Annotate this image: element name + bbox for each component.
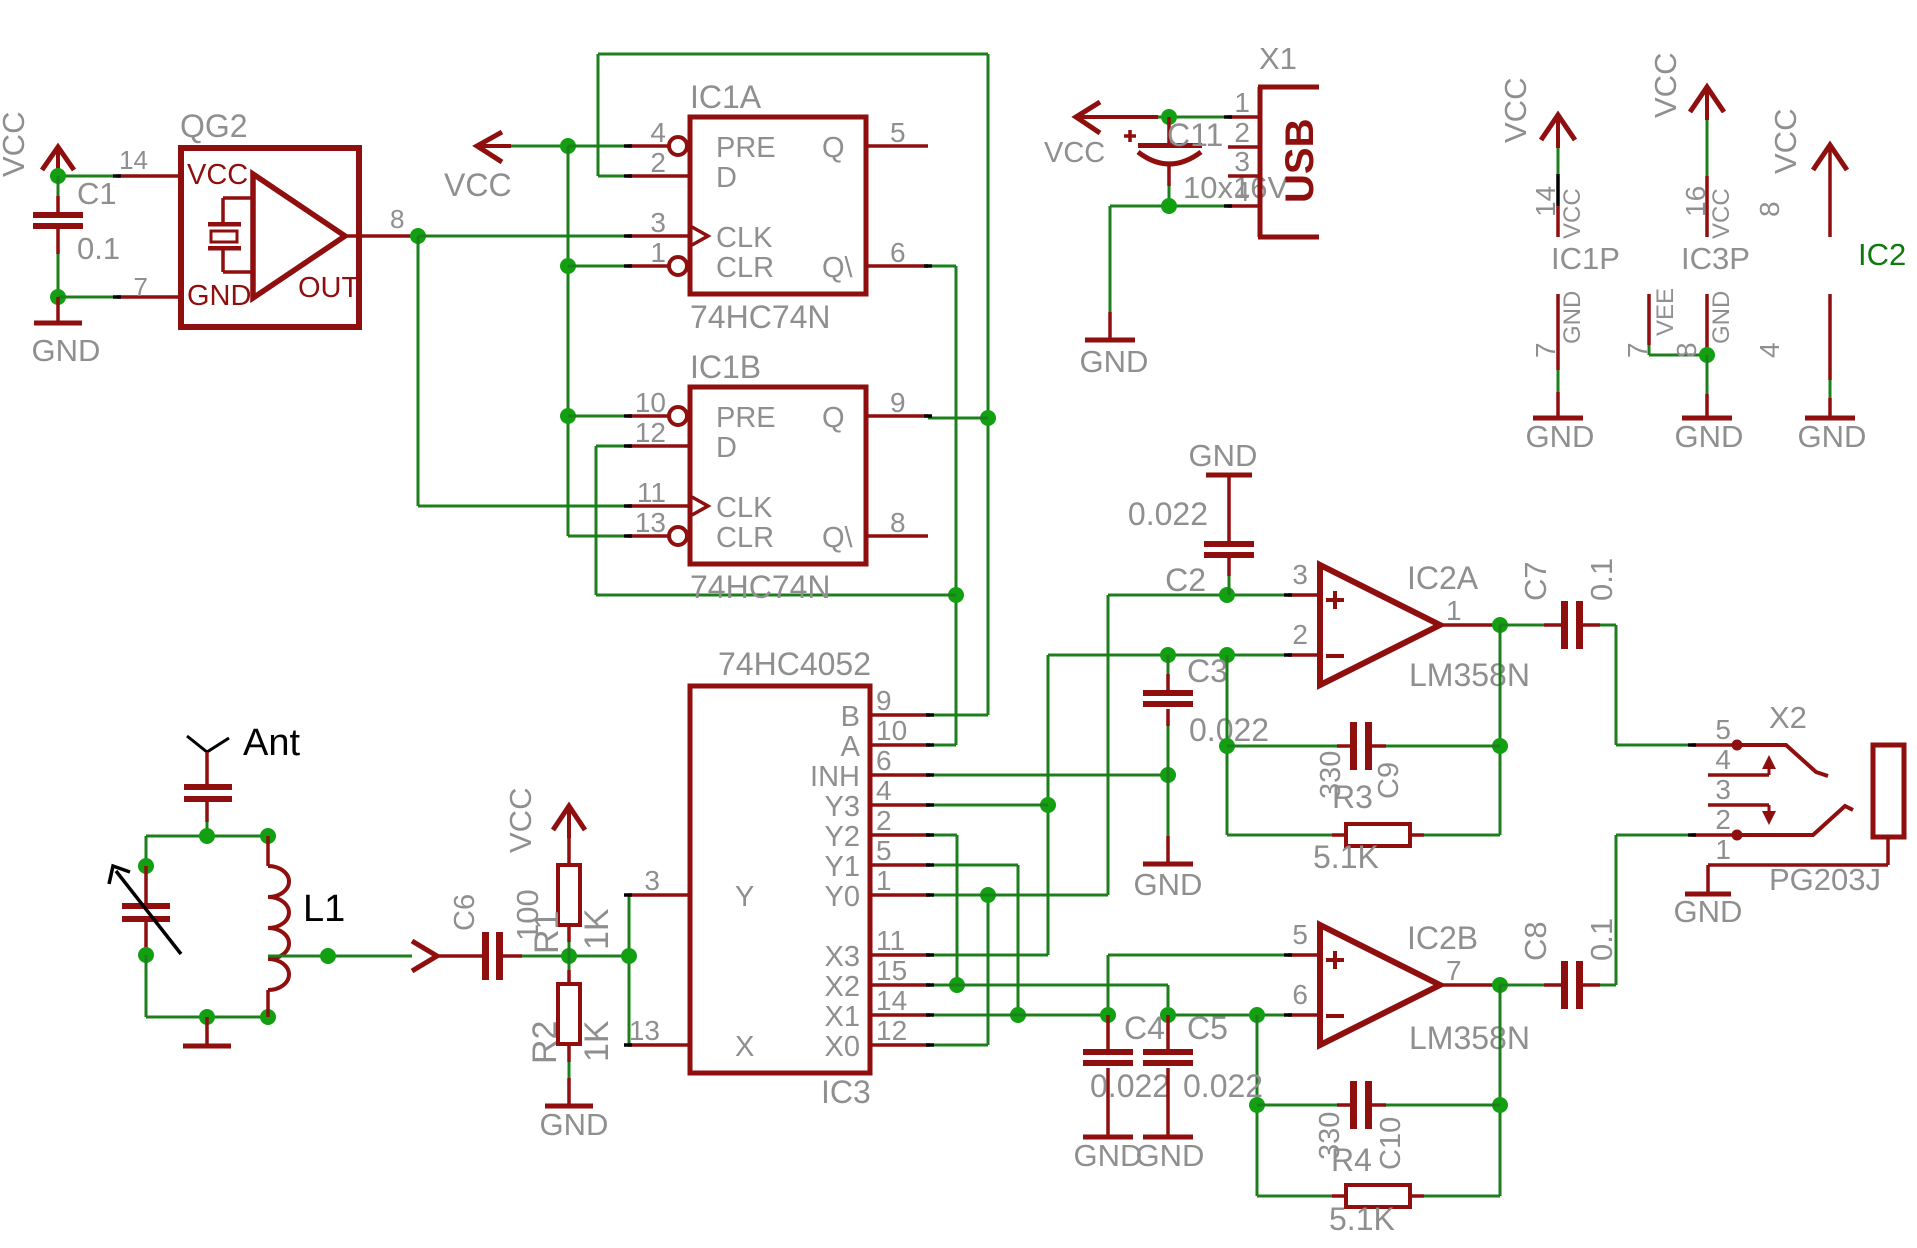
wire C8 to X2 pin2: [1600, 835, 1692, 985]
pin Y3 stub (IC3 pin 4): [870, 803, 930, 807]
pin number 1 (IC3): [876, 865, 892, 896]
pin +in stub (IC2A): [1288, 593, 1320, 597]
connector X1 USB bracket: [1258, 87, 1319, 237]
svg-text:PRE: PRE: [716, 402, 776, 434]
pin 7 VEE (IC3P): [1649, 294, 1707, 355]
pin name B (IC3): [841, 701, 860, 733]
pin 4 stub (X1): [1228, 204, 1260, 208]
value LM358N (IC2A): [1409, 657, 1530, 693]
pin name A (IC3): [841, 731, 861, 763]
capacitor C4 plates: [1083, 1049, 1133, 1066]
pin A stub (IC3 pin 10): [870, 743, 930, 747]
pin number 3 (X2): [1715, 774, 1731, 805]
label IC1B: [690, 349, 761, 385]
svg-text:IC2: IC2: [1858, 237, 1906, 272]
svg-text:9: 9: [876, 685, 892, 716]
svg-text:0.1: 0.1: [1584, 558, 1619, 601]
svg-text:C5: C5: [1187, 1010, 1228, 1046]
junction node VCC/C1 top: [50, 168, 66, 184]
arrow across variable capacitor: [109, 866, 181, 954]
wire feedback B left rail: [1256, 1015, 1259, 1196]
capacitor C5 plates: [1143, 1049, 1193, 1066]
capacitor C11 plates (polarized): [1138, 143, 1202, 164]
svg-text:7: 7: [134, 272, 148, 302]
pin number 2 (X1): [1234, 117, 1250, 148]
net label VCC above R1 (rotated): [503, 788, 538, 853]
pin name VEE (IC3P, rotated): [1652, 288, 1679, 336]
svg-text:CLR: CLR: [716, 522, 774, 554]
pin -in stub (IC2A): [1288, 653, 1320, 657]
svg-text:1: 1: [1234, 87, 1250, 118]
svg-text:IC3P: IC3P: [1681, 241, 1750, 276]
svg-text:8: 8: [1754, 201, 1785, 217]
svg-text:X1: X1: [825, 1001, 860, 1033]
svg-text:OUT: OUT: [298, 272, 360, 304]
wire GND to QG2 pin 7: [58, 296, 117, 299]
pin number 7 (QG2): [134, 272, 148, 302]
pin 14 stub (QG2 VCC): [117, 174, 181, 178]
wire IC1B Q output: [928, 417, 988, 420]
junction antenna/tank top: [199, 828, 215, 844]
pin name OUT (QG2): [298, 272, 360, 304]
svg-text:8: 8: [390, 204, 404, 234]
svg-text:14: 14: [119, 145, 148, 175]
svg-text:3: 3: [650, 207, 666, 238]
pin X0 stub (IC3 pin 12): [870, 1043, 930, 1047]
flip-flop IC1A box: [690, 117, 866, 294]
svg-text:GND: GND: [1708, 291, 1735, 344]
svg-text:C10: C10: [1375, 1117, 1407, 1170]
svg-text:8: 8: [1671, 342, 1702, 358]
pin 16 VCC (IC3P): [1705, 87, 1709, 237]
svg-text:1: 1: [650, 237, 666, 268]
label C4: [1124, 1010, 1165, 1046]
junction node GND/C1 bottom: [50, 289, 66, 305]
pin name Y1 (IC3): [825, 851, 860, 883]
svg-text:Y: Y: [735, 881, 754, 913]
svg-text:C6: C6: [449, 894, 481, 931]
svg-text:2: 2: [1234, 117, 1250, 148]
ground symbol (IC1P): [1533, 416, 1583, 421]
svg-text:IC3: IC3: [821, 1074, 871, 1110]
pin numbers (IC2B): [1292, 919, 1461, 1010]
wire C3 top stem: [1167, 655, 1170, 691]
ground symbol (under C1): [32, 297, 101, 368]
svg-text:VCC: VCC: [1044, 137, 1105, 169]
svg-text:12: 12: [635, 417, 666, 448]
svg-text:5: 5: [1715, 714, 1731, 745]
svg-text:C7: C7: [1518, 561, 1553, 601]
wire Y0 to IC2A + input: [930, 595, 1288, 895]
svg-text:0.1: 0.1: [77, 231, 120, 266]
ground symbol (IC3P): [1682, 416, 1732, 421]
wire C6 node to Y/X riser: [569, 955, 629, 958]
op-amp buffer triangle (QG2 internal): [253, 174, 345, 298]
pin Q stub (IC1A): [866, 144, 928, 148]
label L1: [303, 888, 345, 930]
svg-text:4: 4: [650, 117, 666, 148]
power symbol VCC (IC1P): [1541, 115, 1575, 140]
svg-text:VCC: VCC: [1708, 188, 1735, 239]
inductor L1: [268, 836, 289, 1017]
minus symbol (IC2B): [1326, 1014, 1344, 1018]
wire R4 left: [1257, 1195, 1346, 1198]
svg-text:5: 5: [1292, 919, 1308, 950]
pin number 10 (IC3): [876, 715, 907, 746]
svg-text:Q\: Q\: [822, 522, 854, 554]
svg-text:13: 13: [635, 507, 666, 538]
junction tap wire: [320, 948, 336, 964]
svg-text:GND: GND: [187, 280, 251, 312]
wire C9 right: [1372, 744, 1500, 748]
junction INH/C3: [1160, 767, 1176, 783]
label C11: [1167, 117, 1223, 153]
pin CLR stub (IC1B): [628, 527, 687, 545]
svg-text:0.022: 0.022: [1183, 1068, 1263, 1104]
multiplexer IC3 74HC4052 box: [690, 686, 870, 1073]
pin Q\ stub (IC1B): [866, 534, 928, 538]
pin number 7 (IC1P, rotated): [1530, 342, 1561, 358]
svg-text:0.1: 0.1: [1584, 918, 1619, 961]
svg-text:Ant: Ant: [243, 722, 300, 764]
svg-text:10: 10: [635, 387, 666, 418]
text GND below C4: [1074, 1138, 1143, 1173]
label IC1A: [690, 79, 762, 115]
pin +in stub (IC2B): [1288, 953, 1320, 957]
power symbol VCC above R1: [553, 806, 585, 838]
wire X corner: [628, 1044, 629, 1047]
capacitor C11 plus sign: [1124, 130, 1136, 142]
antenna Ant symbol: [187, 736, 229, 774]
wire IC3P to ground: [1706, 355, 1709, 416]
pin Y2 stub (IC3 pin 2): [870, 833, 930, 837]
junction VEE/GND (IC3P): [1699, 347, 1715, 363]
label IC2A: [1407, 560, 1479, 596]
pin 7 GND (IC1P): [1556, 294, 1560, 416]
svg-text:Y3: Y3: [825, 791, 860, 823]
capacitor C7 plates: [1561, 601, 1583, 649]
svg-text:7: 7: [1530, 342, 1561, 358]
wire C10 right: [1372, 1103, 1500, 1107]
jack sleeve body (X2): [1873, 745, 1904, 837]
svg-text:Y1: Y1: [825, 851, 860, 883]
svg-text:10: 10: [876, 715, 907, 746]
value 1K (R2, rotated): [578, 1020, 616, 1062]
value 0.1 (C8, rotated): [1584, 918, 1619, 961]
wire Y3: [930, 804, 1048, 807]
svg-text:D: D: [716, 162, 737, 194]
svg-text:3: 3: [644, 865, 660, 896]
wire R1 to node: [567, 925, 571, 956]
net label VCC (IC2, rotated): [1768, 109, 1803, 174]
svg-text:3: 3: [1715, 774, 1731, 805]
svg-text:0.022: 0.022: [1090, 1068, 1170, 1104]
svg-text:15: 15: [876, 955, 907, 986]
label C2: [1165, 562, 1206, 598]
pin number 2 (IC3): [876, 805, 892, 836]
wire C3 bottom stem: [1166, 709, 1170, 836]
wire Y corner: [628, 894, 629, 897]
svg-text:PRE: PRE: [716, 132, 776, 164]
junction VCC/PRE4: [560, 138, 576, 154]
pin CLK stub (IC1B): [628, 497, 708, 515]
wire riser +B: [1107, 955, 1110, 1015]
pin number 4 (X1): [1234, 176, 1250, 207]
svg-text:VCC: VCC: [0, 112, 31, 177]
svg-text:5.1K: 5.1K: [1313, 839, 1379, 875]
pin Q\ stub (IC1A): [866, 264, 928, 268]
svg-text:14: 14: [876, 985, 907, 1016]
value 5.1K (R3): [1313, 839, 1379, 875]
junction VCC/CLR1: [560, 258, 576, 274]
value LM358N (IC2B): [1409, 1020, 1530, 1056]
pin 3 switch contact (X2): [1708, 805, 1776, 825]
pin INH stub (IC3 pin 6): [870, 773, 930, 777]
ground symbol below C3: [1134, 836, 1203, 902]
svg-text:GND: GND: [32, 333, 101, 368]
ground symbol (IC2): [1805, 416, 1855, 421]
ground symbol below R2: [540, 1078, 609, 1142]
wire tank left upper: [145, 836, 148, 866]
svg-text:5: 5: [890, 117, 906, 148]
svg-text:R3: R3: [1332, 779, 1373, 815]
wire feedback A right rail: [1499, 625, 1502, 835]
capacitor variable (trimmer) stems: [144, 866, 148, 955]
wire Y1 riser: [930, 865, 1018, 1015]
junction Q9 on riser: [980, 410, 996, 426]
svg-text:C9: C9: [1373, 762, 1405, 799]
text GND above C2: [1189, 438, 1258, 473]
svg-text:0.022: 0.022: [1128, 496, 1208, 532]
pin ticks IC3: [624, 715, 934, 1045]
svg-text:IC1P: IC1P: [1551, 241, 1620, 276]
pin number 4 (X2): [1715, 744, 1731, 775]
wire C6 to R1/R2 node: [503, 954, 569, 958]
svg-text:4: 4: [1234, 176, 1250, 207]
svg-text:9: 9: [890, 387, 906, 418]
svg-text:GND: GND: [1136, 1138, 1205, 1173]
pin ticks QG2: [113, 176, 121, 297]
junction tank bottom / ground: [199, 1009, 215, 1025]
value 74HC74N (IC1A): [690, 299, 831, 335]
pin name X1 (IC3): [825, 1001, 860, 1033]
svg-text:USB: USB: [1278, 119, 1322, 203]
label C1: [77, 176, 117, 211]
resistor R4 body: [1346, 1185, 1410, 1207]
pin number 5 (IC3): [876, 835, 892, 866]
pin number 4 (IC3): [876, 775, 892, 806]
svg-text:GND: GND: [1074, 1138, 1143, 1173]
svg-text:1: 1: [1446, 595, 1462, 626]
wire to IC1A PRE: [568, 145, 628, 148]
wire to IC1A CLR: [568, 265, 628, 268]
pin 7 stub (QG2 GND): [117, 295, 181, 299]
capacitor C1 plates: [33, 212, 83, 229]
svg-text:LM358N: LM358N: [1409, 1020, 1530, 1056]
value 0.022 (C5): [1183, 1068, 1263, 1104]
pin number 8 (IC3P, rotated): [1671, 342, 1702, 358]
svg-text:VCC: VCC: [503, 788, 538, 853]
wire tank top: [146, 835, 268, 838]
junction IC2B output: [1492, 977, 1508, 993]
net label VCC (IC3P, rotated): [1648, 53, 1683, 118]
wire R3 right: [1410, 833, 1500, 837]
net label VCC (near IC1A): [444, 167, 512, 203]
svg-text:6: 6: [876, 745, 892, 776]
capacitor C11 stems: [1167, 117, 1171, 206]
pin number 14 (IC1P, rotated): [1530, 186, 1561, 217]
pin names (IC1B): [716, 402, 854, 554]
wire IC2B out to C8: [1500, 984, 1561, 987]
wire Y-X riser: [628, 895, 631, 1045]
junction varcap top: [138, 858, 154, 874]
wire X0 riser: [930, 895, 988, 1045]
pin names (IC1A): [716, 132, 854, 284]
ground symbol above C2: [1206, 475, 1252, 541]
ground symbol below tank: [183, 1017, 231, 1046]
power symbol VCC (IC3P): [1690, 87, 1724, 112]
svg-text:6: 6: [1292, 979, 1308, 1010]
pin name VCC (IC1P, rotated): [1559, 188, 1586, 239]
arrow on wire to C6: [412, 941, 482, 971]
pin Y1 stub (IC3 pin 5): [870, 863, 930, 867]
svg-text:CLK: CLK: [716, 222, 773, 254]
junction C11 top: [1161, 109, 1177, 125]
pin name VCC (QG2): [187, 159, 248, 191]
svg-text:GND: GND: [1798, 419, 1867, 454]
svg-text:A: A: [841, 731, 861, 763]
label C7 (rotated): [1518, 561, 1553, 601]
svg-text:1: 1: [876, 865, 892, 896]
svg-text:VCC: VCC: [1768, 109, 1803, 174]
pin name X (IC3): [735, 1031, 754, 1063]
svg-text:L1: L1: [303, 888, 345, 930]
wire IC2A out to C7: [1500, 624, 1561, 627]
junction C4/X1/+B: [1100, 1007, 1116, 1023]
svg-text:GND: GND: [1080, 344, 1149, 379]
plus symbol (IC2A): [1326, 591, 1344, 609]
label X2: [1769, 700, 1807, 735]
pin CLK stub (IC1A): [628, 227, 708, 245]
wire IC1A Q\ to 4052 A: [928, 266, 956, 745]
pin 4 switch contact (X2): [1708, 755, 1776, 775]
junction C3 top: [1160, 647, 1176, 663]
value 0.1 (C1): [77, 231, 120, 266]
svg-text:LM358N: LM358N: [1409, 657, 1530, 693]
svg-text:2: 2: [1715, 804, 1731, 835]
ground symbol below USB: [1080, 312, 1149, 379]
svg-text:1K: 1K: [578, 908, 616, 950]
wire to IC2B - input: [1168, 1014, 1288, 1017]
pin 5 stub (X2): [1692, 743, 1737, 747]
pin name INH (IC3): [810, 761, 860, 793]
net label VCC (IC1P, rotated): [1498, 78, 1533, 143]
capacitor C10 plates: [1350, 1081, 1372, 1129]
pin ticks X2: [1688, 745, 1696, 835]
label IC1P: [1551, 241, 1620, 276]
pin 1 stub (X1): [1228, 115, 1260, 119]
svg-text:7: 7: [1622, 342, 1653, 358]
svg-text:VCC: VCC: [444, 167, 512, 203]
svg-text:INH: INH: [810, 761, 860, 793]
svg-text:Q: Q: [822, 132, 845, 164]
net label VCC (left edge, rotated): [0, 112, 31, 177]
pin name GND (IC3P, rotated): [1708, 291, 1735, 344]
pin 4 GND (IC2): [1828, 294, 1832, 416]
wire to GND symbol: [1109, 206, 1112, 312]
junction Q\6 riser / D12 branch: [948, 587, 964, 603]
pin 1 sleeve wire (X2): [1708, 838, 1888, 865]
value 0.022 (C3): [1189, 712, 1269, 748]
minus symbol (IC2A): [1326, 654, 1344, 658]
wire X1 to C4 node: [930, 1014, 1108, 1017]
svg-text:X2: X2: [825, 971, 860, 1003]
svg-text:4: 4: [876, 775, 892, 806]
value 330 (C10, rotated): [1314, 1112, 1346, 1160]
svg-text:X3: X3: [825, 941, 860, 973]
label IC2: [1858, 237, 1906, 272]
pin name X2 (IC3): [825, 971, 860, 1003]
svg-text:C8: C8: [1518, 921, 1553, 961]
label QG2: [180, 108, 248, 144]
svg-text:6: 6: [890, 237, 906, 268]
junction C10 right: [1492, 1097, 1508, 1113]
pin number 14 (QG2): [119, 145, 148, 175]
resistor R1 body: [558, 865, 580, 925]
label Ant: [243, 722, 300, 764]
svg-text:Y2: Y2: [825, 821, 860, 853]
pin ticks X1: [1224, 117, 1232, 206]
wire C9 left: [1227, 745, 1350, 748]
pin name Y2 (IC3): [825, 821, 860, 853]
wire R2 to GND: [567, 1044, 571, 1078]
svg-text:1: 1: [1715, 834, 1731, 865]
jack tip contact arm (pin 5): [1737, 745, 1828, 776]
pin Q stub (IC1B): [866, 414, 928, 418]
value 1K (R1, rotated): [578, 908, 616, 950]
pin number 3 (IC3): [644, 865, 660, 896]
wire C4 bottom stem: [1106, 1068, 1110, 1136]
svg-text:3: 3: [1292, 559, 1308, 590]
value 100 (C6, rotated): [510, 889, 545, 941]
pin name GND (QG2): [187, 280, 251, 312]
svg-text:C11: C11: [1167, 117, 1223, 153]
pin name Y0 (IC3): [825, 881, 860, 913]
value PG203J (X2): [1769, 862, 1881, 897]
junction Y/X riser: [621, 948, 637, 964]
svg-text:11: 11: [876, 925, 905, 956]
junction feedback B: [1249, 1007, 1265, 1023]
pin name X3 (IC3): [825, 941, 860, 973]
pin 2 stub (X1): [1228, 145, 1260, 149]
svg-text:X0: X0: [825, 1031, 860, 1063]
pin out stub (IC2A): [1440, 623, 1500, 627]
crystal symbol (QG2 internal): [208, 198, 253, 272]
junction C2 top: [1219, 587, 1235, 603]
svg-text:CLR: CLR: [716, 252, 774, 284]
wire C4 top stem: [1106, 1015, 1110, 1050]
svg-text:11: 11: [637, 477, 666, 508]
junction C10 left: [1249, 1097, 1265, 1113]
wire branch to IC1B D: [596, 446, 956, 595]
junction IC2A output: [1492, 617, 1508, 633]
svg-text:PG203J: PG203J: [1769, 862, 1881, 897]
label IC3P: [1681, 241, 1750, 276]
value 0.022 (C2): [1128, 496, 1208, 532]
svg-text:C4: C4: [1124, 1010, 1165, 1046]
junction R1/R2/C6: [561, 948, 577, 964]
pin 8 GND (IC3P): [1705, 294, 1709, 355]
